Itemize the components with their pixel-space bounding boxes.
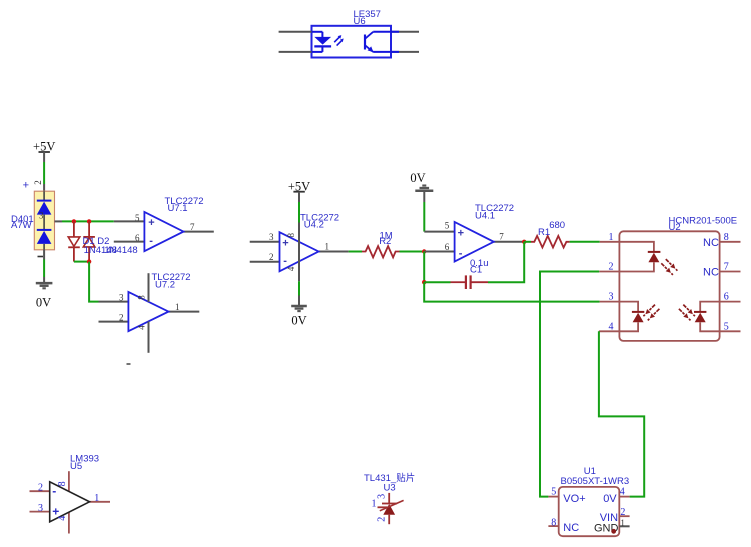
U2 PD1 light arrows xyxy=(643,305,659,321)
U1 pin number 1 xyxy=(620,518,625,528)
svg-text:3: 3 xyxy=(609,292,614,303)
svg-text:4: 4 xyxy=(137,325,147,330)
U4.2 pin number 1 xyxy=(325,241,330,251)
svg-text:6: 6 xyxy=(135,233,140,243)
wire U2 pin2 to U1 pin5 (long vertical) xyxy=(540,272,599,497)
label LM393 xyxy=(70,454,99,465)
U7.2 pin number 3 xyxy=(119,292,124,302)
svg-text:6: 6 xyxy=(445,242,450,252)
resistor R2 xyxy=(362,246,400,257)
U1 pin number 4 xyxy=(620,487,625,498)
U7.2 pin number 1 xyxy=(175,302,180,312)
label TLC2272 (U4.2) xyxy=(300,212,339,223)
U7.1 pin number 5 xyxy=(135,213,140,223)
U5 pin number 2 xyxy=(38,483,43,494)
U5 pin number 8 (rotated) xyxy=(57,481,68,486)
U4.1 pin number 7 xyxy=(499,232,504,242)
op-amp U4.1 xyxy=(424,222,524,262)
svg-text:8: 8 xyxy=(551,517,556,528)
wire U4.2 out to R2 xyxy=(349,251,362,253)
U1 pin 4 stub xyxy=(619,496,629,498)
shunt regulator U3 TL431 xyxy=(378,493,404,524)
svg-text:3: 3 xyxy=(376,494,387,499)
bridge rectifier D401 A7W body xyxy=(34,191,54,250)
svg-text:1: 1 xyxy=(175,302,180,312)
ground 0V (top middle) xyxy=(410,171,433,202)
wire pin6 node down to C1 node xyxy=(423,252,425,283)
U7.2 pin number 8 (rotated) xyxy=(137,295,147,300)
dc-dc converter U1 B0505XT-1WR3 body xyxy=(559,487,620,536)
svg-text:+: + xyxy=(282,238,288,250)
svg-text:5: 5 xyxy=(445,221,450,231)
U2 pin number 6 xyxy=(724,292,729,303)
junction dot (U1 GND) xyxy=(611,529,616,534)
U2 pin 3 stub xyxy=(600,301,620,303)
svg-text:NC: NC xyxy=(703,267,719,279)
U2 pin 7 stub xyxy=(720,271,741,273)
D401 bottom pin stub xyxy=(43,250,45,260)
D401 top pin stub xyxy=(43,184,45,191)
svg-text:U5: U5 xyxy=(70,461,82,472)
D401 plus mark xyxy=(23,179,29,191)
capacitor C1 xyxy=(451,275,489,289)
label 0.1u xyxy=(470,258,489,269)
U1 label GND xyxy=(594,523,619,535)
label HCNR201-500E xyxy=(669,215,738,226)
svg-text:1: 1 xyxy=(325,241,330,251)
U2 photodiode PD2 (pins 5-6) xyxy=(694,302,720,332)
svg-text:3: 3 xyxy=(39,211,44,221)
svg-text:NC: NC xyxy=(563,522,579,534)
svg-text:1N4148: 1N4148 xyxy=(104,245,137,256)
wire +5V to U4.2 pin8 xyxy=(298,202,300,223)
U2 internal LED (pins 1-2) xyxy=(619,242,660,272)
label A7W xyxy=(11,220,32,231)
optocoupler U2 HCNR201-500E body xyxy=(619,231,719,341)
svg-text:1: 1 xyxy=(94,493,99,504)
svg-text:4: 4 xyxy=(286,266,296,271)
U3 pin number 1 xyxy=(372,498,377,509)
svg-text:U7.1: U7.1 xyxy=(168,203,188,214)
wire node A to U7.1 pin5 xyxy=(62,220,114,222)
junction dot (C1 node) xyxy=(422,280,426,284)
wire C1 node down and right to U2 pin3 xyxy=(424,282,599,301)
wire down to U7.2 pin3 xyxy=(89,262,98,302)
wire U2 pin4 to U1 pin4 xyxy=(599,331,644,496)
label 1N4148 (D2) xyxy=(104,245,137,256)
U4.1 pin number 6 xyxy=(445,242,450,252)
svg-text:U4.1: U4.1 xyxy=(475,211,495,222)
svg-text:0V: 0V xyxy=(603,493,617,505)
svg-text:+: + xyxy=(458,227,464,239)
svg-text:2: 2 xyxy=(269,252,274,262)
D401 pin 2 number (rotated) xyxy=(33,180,43,185)
svg-text:+: + xyxy=(23,179,29,191)
U5 pin number 4 (rotated) xyxy=(57,516,68,521)
label U3 xyxy=(384,482,396,493)
svg-text:5: 5 xyxy=(551,487,556,498)
svg-text:7: 7 xyxy=(190,222,195,232)
label D401 xyxy=(11,214,34,225)
U2 pin number 4 xyxy=(609,321,614,332)
U1 pin number 5 xyxy=(551,487,556,498)
svg-text:U4.2: U4.2 xyxy=(304,220,324,231)
optocoupler U6 LE357 body xyxy=(312,26,392,58)
svg-text:U7.2: U7.2 xyxy=(155,280,175,291)
svg-text:0V: 0V xyxy=(36,296,51,310)
svg-text:U6: U6 xyxy=(354,16,366,27)
U1 pin number 2 xyxy=(620,507,625,518)
svg-text:0V: 0V xyxy=(291,314,306,328)
U7.1 pin number 6 xyxy=(135,233,140,243)
svg-text:-: - xyxy=(52,484,56,498)
label 1M xyxy=(380,230,393,241)
svg-text:8: 8 xyxy=(724,232,729,243)
U6 phototransistor xyxy=(365,32,399,52)
U2 pin 4 stub xyxy=(599,330,620,332)
wire C1 left lead xyxy=(424,281,450,283)
U2 pin 1 stub xyxy=(600,241,620,243)
U2 pin number 5 xyxy=(724,321,729,332)
label D2 xyxy=(97,236,109,247)
svg-text:3: 3 xyxy=(119,292,124,302)
U2 NC label (pin 7) xyxy=(703,267,719,279)
wire U6 right top xyxy=(391,31,419,33)
label TLC2272 (U7.1) xyxy=(165,196,204,207)
U2 photodiode PD1 (pins 3-4) xyxy=(619,302,644,332)
label U4.2 xyxy=(304,220,324,231)
U2 pin 5 stub xyxy=(720,330,741,332)
U7.1 pin number 7 xyxy=(190,222,195,232)
U6 internal LED xyxy=(312,32,332,52)
U2 LED emission arrows xyxy=(661,259,677,275)
U4.2 pin number 4 (rotated) xyxy=(286,266,296,271)
svg-text:5: 5 xyxy=(135,213,140,223)
U5 pin number 3 xyxy=(38,503,43,514)
D401 minus mark xyxy=(38,256,44,258)
wire D1 D2 bottom join xyxy=(74,261,89,263)
wire U4.2 pin4 to ground xyxy=(298,281,300,295)
svg-text:4: 4 xyxy=(609,321,614,332)
svg-text:8: 8 xyxy=(57,481,68,486)
U1 pin 1 stub (GND) xyxy=(619,525,629,527)
U1 label NC xyxy=(563,522,579,534)
svg-text:A7W: A7W xyxy=(11,220,32,231)
U2 pin 8 stub xyxy=(720,241,741,243)
label R2 xyxy=(379,236,391,247)
wire +5V to D401 xyxy=(43,162,45,184)
svg-text:680: 680 xyxy=(549,220,565,231)
wire C1 to output feedback xyxy=(488,242,524,282)
svg-text:2: 2 xyxy=(609,262,614,273)
wire output to R1 xyxy=(524,241,531,243)
stray minus mark xyxy=(127,363,131,365)
junction dot xyxy=(87,259,91,263)
U3 pin number 2 (rotated) xyxy=(376,517,387,522)
svg-text:U3: U3 xyxy=(384,482,396,493)
svg-text:2: 2 xyxy=(38,483,43,494)
U4.2 pin number 3 xyxy=(269,232,274,242)
U1 label 0V xyxy=(603,493,617,505)
power +5V (U4.2) xyxy=(288,179,310,202)
D401 pin 3 number xyxy=(39,211,44,221)
wire U6 pin1 left top xyxy=(279,31,312,33)
svg-text:-: - xyxy=(283,255,287,267)
svg-text:3: 3 xyxy=(38,503,43,514)
U3 pin number 3 (rotated) xyxy=(376,494,387,499)
wire R2 to U4.1 pin6 xyxy=(400,251,425,253)
label 1N4148 (D1) xyxy=(84,245,117,256)
svg-text:6: 6 xyxy=(724,292,729,303)
U2 NC label (pin 8) xyxy=(703,237,719,249)
svg-text:C1: C1 xyxy=(470,265,482,276)
label U4.1 xyxy=(475,211,495,222)
svg-text:5: 5 xyxy=(724,321,729,332)
U6 LED emission arrows xyxy=(334,35,344,46)
svg-text:3: 3 xyxy=(269,232,274,242)
junction dot (pin6 node) xyxy=(422,249,426,253)
comparator U5 LM393 xyxy=(30,471,111,533)
svg-text:4: 4 xyxy=(57,516,68,521)
svg-text:-: - xyxy=(149,235,153,247)
diode D1 xyxy=(68,221,80,261)
svg-text:8: 8 xyxy=(286,232,296,237)
U2 pin 2 stub xyxy=(599,271,619,273)
wire R1 to U2 pin1 xyxy=(570,241,600,243)
junction dot xyxy=(72,219,76,223)
wire U6 pin2 left bottom xyxy=(279,51,312,53)
label U6 xyxy=(354,16,366,27)
U4.2 pin number 8 (rotated) xyxy=(286,232,296,237)
svg-text:R2: R2 xyxy=(379,236,391,247)
U2 pin number 7 xyxy=(724,262,729,273)
svg-text:1: 1 xyxy=(620,518,625,528)
svg-text:2: 2 xyxy=(376,517,387,522)
U1 pin 2 stub xyxy=(619,515,629,517)
U2 PD2 light arrows xyxy=(679,305,695,321)
op-amp U7.2 xyxy=(99,273,200,353)
label TLC2272 (U7.2) xyxy=(152,272,191,283)
diode D2 xyxy=(83,221,95,261)
svg-text:1: 1 xyxy=(609,232,614,243)
U1 pin 5 stub xyxy=(548,496,558,498)
svg-text:8: 8 xyxy=(137,295,147,300)
U2 pin 6 stub xyxy=(720,301,741,303)
U5 pin number 1 xyxy=(94,493,99,504)
op-amp U7.1 xyxy=(114,212,214,251)
svg-text:0V: 0V xyxy=(410,171,425,185)
svg-text:1: 1 xyxy=(372,498,377,509)
wire ground to U4.1 pin5 xyxy=(423,202,425,232)
D401 pin 3 stub xyxy=(55,220,63,222)
label U7.2 xyxy=(155,280,175,291)
label U5 xyxy=(70,461,82,472)
power +5V (left) xyxy=(33,140,55,162)
U2 pin number 1 xyxy=(609,232,614,243)
U7.2 pin number 4 (rotated) xyxy=(137,325,147,330)
U1 label VO+ xyxy=(563,493,585,505)
label 680 xyxy=(549,220,565,231)
resistor R1 xyxy=(531,236,570,248)
ground 0V (U4.2) xyxy=(291,296,307,328)
svg-text:NC: NC xyxy=(703,237,719,249)
U1 pin number 8 xyxy=(551,517,556,528)
label TLC2272 (U4.1) xyxy=(475,203,514,214)
label U7.1 xyxy=(168,203,188,214)
svg-text:7: 7 xyxy=(499,232,504,242)
label U2 xyxy=(669,222,681,233)
U1 label VIN xyxy=(600,512,618,524)
label B0505XT-1WR3 xyxy=(561,476,630,487)
U1 pin 8 stub xyxy=(548,525,558,527)
U4.1 pin number 5 xyxy=(445,221,450,231)
junction dot (U4.1 output) xyxy=(522,240,526,244)
ground 0V (left) xyxy=(36,277,53,310)
op-amp U4.2 xyxy=(250,223,349,282)
svg-text:7: 7 xyxy=(724,262,729,273)
svg-text:2: 2 xyxy=(119,312,124,322)
label TL431_贴片 xyxy=(364,472,415,484)
U2 pin number 3 xyxy=(609,292,614,303)
svg-text:2: 2 xyxy=(620,507,625,518)
wire D401 to ground xyxy=(43,260,45,278)
svg-text:-: - xyxy=(459,247,463,259)
label R1 xyxy=(538,227,550,238)
U2 pin number 2 xyxy=(609,262,614,273)
junction dot xyxy=(87,219,91,223)
label LE357 xyxy=(354,9,381,20)
label U1 xyxy=(584,466,596,477)
U2 pin number 8 xyxy=(724,232,729,243)
wire U6 right bottom xyxy=(391,51,419,53)
svg-text:+: + xyxy=(148,217,154,229)
svg-text:B0505XT-1WR3: B0505XT-1WR3 xyxy=(561,476,630,487)
svg-text:VO+: VO+ xyxy=(563,493,585,505)
label D1 xyxy=(83,236,95,247)
U4.2 pin number 2 xyxy=(269,252,274,262)
svg-text:4: 4 xyxy=(620,487,625,498)
svg-text:2: 2 xyxy=(33,180,43,185)
svg-text:U2: U2 xyxy=(669,222,681,233)
label C1 xyxy=(470,265,482,276)
U7.2 pin number 2 xyxy=(119,312,124,322)
